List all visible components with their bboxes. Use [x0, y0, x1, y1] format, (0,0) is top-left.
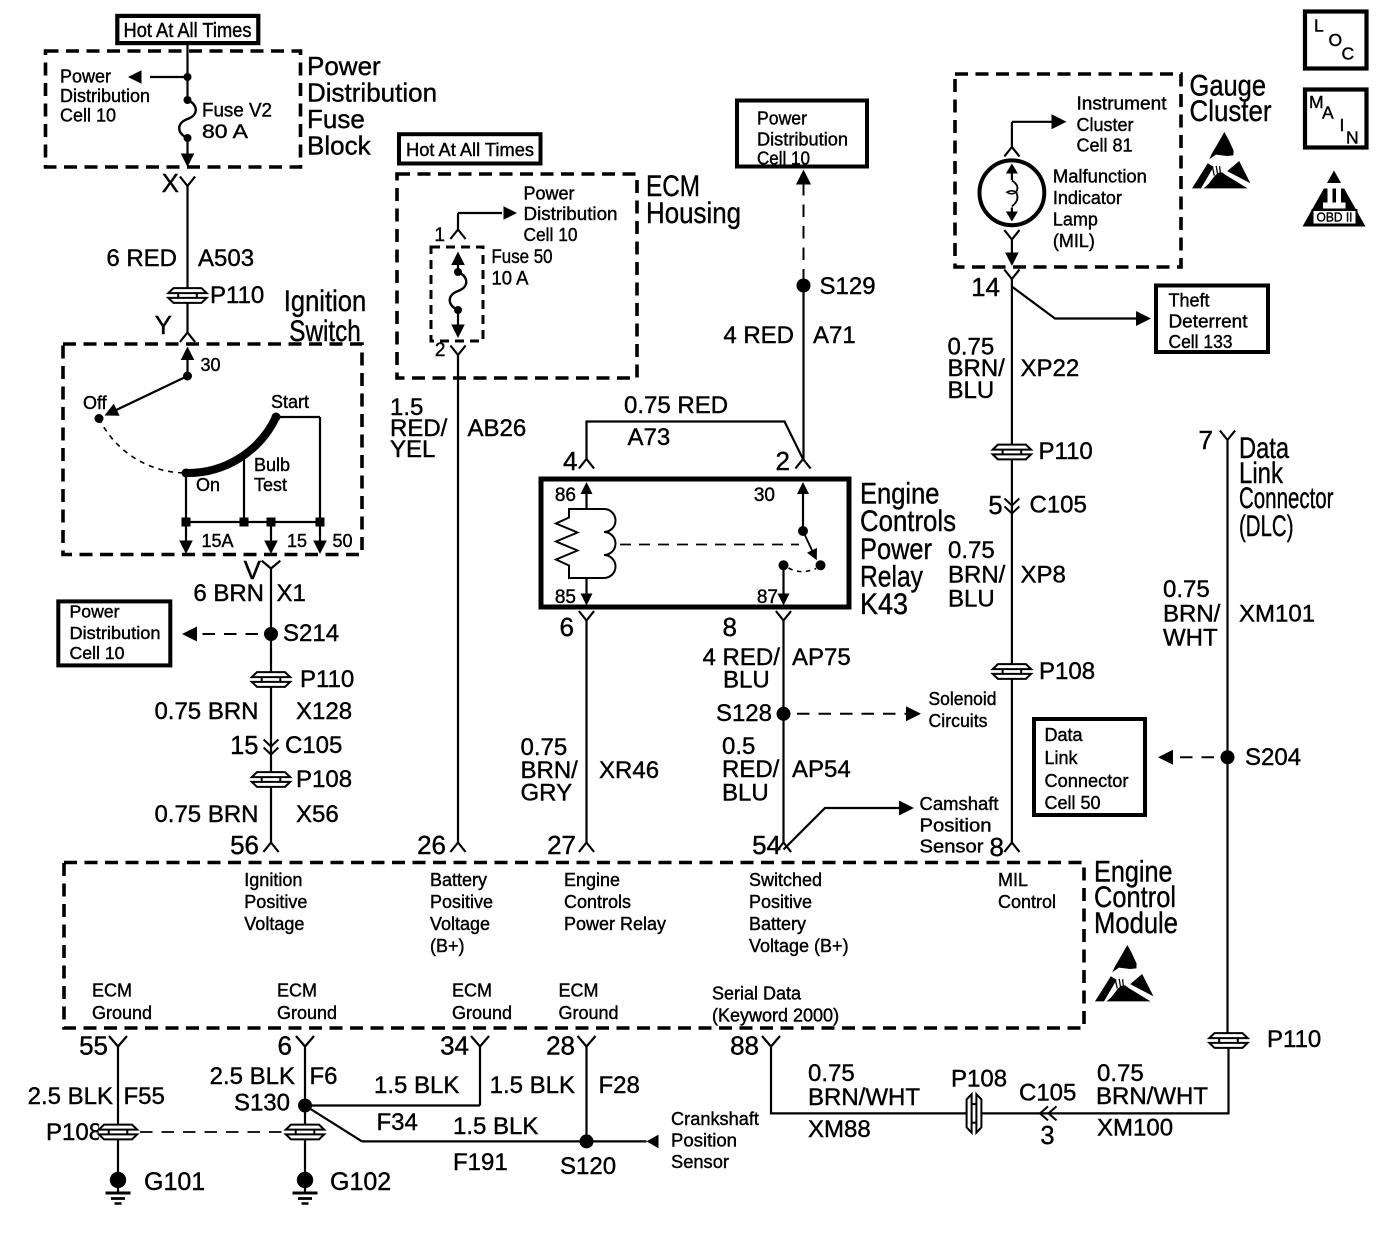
svg-text:BRN/: BRN/	[948, 562, 1006, 589]
svg-text:C105: C105	[285, 732, 342, 759]
svg-text:XP22: XP22	[1021, 355, 1080, 382]
svg-text:Sensor: Sensor	[920, 837, 984, 857]
svg-text:Battery: Battery	[430, 870, 487, 890]
svg-text:Solenoid: Solenoid	[929, 689, 997, 709]
svg-text:5: 5	[988, 492, 1002, 520]
svg-text:50: 50	[333, 531, 353, 551]
svg-text:Ground: Ground	[92, 1003, 152, 1023]
svg-text:Circuits: Circuits	[929, 711, 988, 731]
svg-text:G101: G101	[144, 1168, 205, 1196]
svg-text:ECM: ECM	[277, 981, 317, 1001]
svg-text:P110: P110	[300, 666, 354, 693]
svg-text:F28: F28	[599, 1072, 640, 1099]
svg-text:(DLC): (DLC)	[1239, 510, 1294, 543]
svg-text:ECM: ECM	[559, 981, 599, 1001]
svg-text:F191: F191	[453, 1149, 508, 1176]
svg-text:A73: A73	[628, 424, 671, 451]
svg-text:1.5 BLK: 1.5 BLK	[374, 1072, 459, 1099]
svg-text:56: 56	[230, 830, 259, 860]
svg-text:P110: P110	[1267, 1026, 1321, 1053]
svg-text:Switched: Switched	[749, 870, 822, 890]
svg-text:Indicator: Indicator	[1053, 188, 1122, 208]
svg-text:BRN/: BRN/	[1163, 601, 1221, 628]
svg-text:Fuse: Fuse	[307, 104, 365, 134]
svg-text:F34: F34	[377, 1109, 418, 1136]
svg-text:S129: S129	[820, 273, 876, 300]
svg-text:C: C	[1342, 44, 1355, 64]
svg-text:26: 26	[417, 830, 446, 860]
svg-text:Crankshaft: Crankshaft	[671, 1109, 759, 1129]
svg-text:BLU: BLU	[722, 780, 769, 807]
svg-text:0.75 RED: 0.75 RED	[624, 392, 728, 419]
svg-text:Data: Data	[1045, 725, 1084, 745]
svg-text:Distribution: Distribution	[307, 78, 437, 108]
svg-text:Cell 10: Cell 10	[70, 643, 125, 663]
svg-text:Power: Power	[757, 109, 807, 129]
svg-text:Distribution: Distribution	[60, 86, 150, 106]
svg-text:1.5 BLK: 1.5 BLK	[490, 1072, 575, 1099]
svg-text:Power Relay: Power Relay	[564, 914, 666, 934]
svg-text:Power: Power	[524, 184, 575, 204]
svg-text:XM101: XM101	[1239, 601, 1315, 628]
svg-text:1.5 BLK: 1.5 BLK	[453, 1113, 538, 1140]
svg-text:Control: Control	[998, 892, 1056, 912]
svg-text:1: 1	[434, 225, 445, 246]
svg-text:F6: F6	[310, 1063, 338, 1090]
svg-text:Battery: Battery	[749, 914, 806, 934]
svg-text:Ignition: Ignition	[284, 285, 367, 318]
svg-text:55: 55	[79, 1031, 108, 1061]
svg-text:8: 8	[990, 832, 1004, 862]
svg-text:ECM: ECM	[452, 981, 492, 1001]
svg-text:P108: P108	[951, 1066, 1007, 1093]
svg-text:Bulb: Bulb	[254, 455, 290, 475]
svg-text:BLU: BLU	[948, 586, 995, 613]
svg-text:X128: X128	[296, 698, 352, 725]
svg-text:Cell 10: Cell 10	[757, 149, 810, 169]
svg-text:2: 2	[435, 340, 446, 361]
svg-text:7: 7	[1199, 425, 1213, 455]
svg-text:P110: P110	[1039, 438, 1093, 465]
svg-text:4 RED: 4 RED	[723, 322, 794, 349]
svg-text:2.5 BLK: 2.5 BLK	[28, 1083, 113, 1110]
svg-text:S214: S214	[283, 620, 339, 647]
svg-text:XM88: XM88	[808, 1116, 871, 1143]
svg-text:Cell 50: Cell 50	[1045, 793, 1101, 813]
svg-text:Cluster: Cluster	[1190, 95, 1272, 128]
svg-text:X56: X56	[296, 801, 339, 828]
svg-text:27: 27	[547, 830, 576, 860]
svg-text:Cluster: Cluster	[1077, 115, 1134, 135]
svg-text:15A: 15A	[202, 531, 234, 551]
svg-text:Cell 133: Cell 133	[1169, 332, 1233, 352]
svg-text:AB26: AB26	[468, 415, 527, 442]
svg-text:Power: Power	[60, 67, 111, 87]
svg-text:MIL: MIL	[998, 870, 1028, 890]
svg-text:2.5 BLK: 2.5 BLK	[210, 1063, 295, 1090]
svg-text:8: 8	[723, 612, 737, 642]
svg-text:C105: C105	[1030, 492, 1087, 519]
svg-text:Ground: Ground	[277, 1003, 337, 1023]
svg-text:28: 28	[546, 1031, 575, 1061]
svg-text:O: O	[1329, 30, 1343, 50]
svg-text:A71: A71	[813, 322, 856, 349]
svg-text:AP54: AP54	[792, 756, 851, 783]
svg-text:Power: Power	[70, 602, 120, 622]
svg-text:Housing: Housing	[646, 197, 741, 230]
svg-text:G102: G102	[330, 1168, 391, 1196]
svg-text:P108: P108	[1039, 658, 1095, 685]
svg-text:Hot At All Times: Hot At All Times	[124, 20, 252, 42]
svg-text:S120: S120	[560, 1153, 616, 1180]
svg-text:Camshaft: Camshaft	[920, 794, 999, 814]
svg-text:88: 88	[730, 1031, 759, 1061]
svg-text:BRN/WHT: BRN/WHT	[808, 1084, 920, 1111]
svg-text:Start: Start	[271, 392, 309, 412]
svg-text:Hot At All Times: Hot At All Times	[406, 140, 534, 160]
svg-text:(Keyword 2000): (Keyword 2000)	[712, 1006, 839, 1026]
svg-text:Cell 81: Cell 81	[1077, 136, 1133, 156]
svg-text:XM100: XM100	[1097, 1115, 1173, 1142]
svg-text:C105: C105	[1019, 1080, 1076, 1107]
svg-text:Sensor: Sensor	[671, 1152, 729, 1172]
svg-text:Block: Block	[307, 131, 372, 161]
svg-text:80 A: 80 A	[202, 122, 248, 143]
svg-text:0.75 BRN: 0.75 BRN	[154, 698, 258, 725]
svg-text:Ground: Ground	[559, 1003, 619, 1023]
svg-text:(B+): (B+)	[430, 936, 465, 956]
svg-text:30: 30	[754, 485, 775, 506]
svg-text:S204: S204	[1245, 744, 1301, 771]
svg-text:4: 4	[563, 446, 577, 476]
svg-text:15: 15	[230, 732, 258, 760]
svg-text:A503: A503	[198, 245, 254, 272]
svg-text:14: 14	[971, 272, 1000, 302]
svg-text:10 A: 10 A	[492, 269, 529, 290]
svg-text:Ground: Ground	[452, 1003, 512, 1023]
svg-text:BLU: BLU	[723, 667, 770, 694]
svg-text:Positive: Positive	[430, 892, 493, 912]
svg-text:Deterrent: Deterrent	[1169, 312, 1248, 332]
svg-text:S130: S130	[234, 1090, 290, 1117]
svg-text:34: 34	[440, 1031, 469, 1061]
svg-text:Position: Position	[920, 816, 992, 836]
svg-text:Off: Off	[83, 393, 108, 413]
svg-text:2: 2	[776, 446, 790, 476]
svg-text:Cell 10: Cell 10	[524, 225, 578, 245]
svg-text:A: A	[1322, 103, 1334, 123]
svg-text:Serial Data: Serial Data	[712, 984, 802, 1004]
svg-text:0.75: 0.75	[948, 537, 995, 564]
svg-text:XR46: XR46	[599, 757, 659, 784]
svg-text:P108: P108	[46, 1119, 102, 1146]
svg-text:BLU: BLU	[948, 377, 995, 404]
svg-text:WHT: WHT	[1163, 625, 1218, 652]
svg-text:Power: Power	[307, 51, 381, 81]
svg-text:Malfunction: Malfunction	[1053, 167, 1147, 187]
svg-text:Positive: Positive	[244, 892, 307, 912]
svg-text:Position: Position	[671, 1131, 737, 1151]
svg-text:Fuse V2: Fuse V2	[202, 101, 272, 122]
svg-text:P108: P108	[296, 766, 352, 793]
svg-text:6: 6	[560, 612, 574, 642]
svg-text:XP8: XP8	[1021, 562, 1066, 589]
svg-text:AP75: AP75	[792, 644, 851, 671]
svg-text:N: N	[1346, 128, 1359, 148]
svg-text:I: I	[1340, 115, 1345, 135]
svg-text:3: 3	[1040, 1122, 1054, 1150]
svg-text:Voltage: Voltage	[244, 914, 304, 934]
svg-text:Positive: Positive	[749, 892, 812, 912]
svg-text:6: 6	[278, 1031, 292, 1061]
svg-text:Distribution: Distribution	[70, 623, 161, 643]
svg-text:Voltage: Voltage	[430, 914, 490, 934]
svg-text:YEL: YEL	[390, 436, 435, 463]
svg-text:X1: X1	[277, 580, 306, 607]
svg-text:ECM: ECM	[92, 981, 132, 1001]
svg-text:30: 30	[201, 355, 221, 375]
svg-text:6 RED: 6 RED	[106, 245, 177, 272]
svg-text:Link: Link	[1045, 748, 1079, 768]
svg-text:(MIL): (MIL)	[1053, 231, 1095, 251]
svg-text:Distribution: Distribution	[524, 204, 618, 224]
svg-text:F55: F55	[124, 1083, 165, 1110]
svg-text:Theft: Theft	[1169, 291, 1210, 311]
svg-text:K43: K43	[860, 588, 908, 621]
svg-text:X: X	[162, 168, 179, 198]
svg-text:Connector: Connector	[1045, 771, 1129, 791]
svg-text:0.75: 0.75	[808, 1060, 855, 1087]
svg-text:Controls: Controls	[564, 892, 631, 912]
svg-text:Lamp: Lamp	[1053, 210, 1098, 230]
svg-text:On: On	[196, 475, 220, 495]
svg-text:15: 15	[287, 531, 307, 551]
svg-text:Y: Y	[155, 310, 172, 340]
svg-text:Instrument: Instrument	[1077, 94, 1167, 114]
svg-text:Test: Test	[254, 475, 287, 495]
svg-text:Ignition: Ignition	[244, 870, 302, 890]
svg-text:87: 87	[757, 587, 778, 608]
svg-text:S128: S128	[716, 700, 772, 727]
svg-text:85: 85	[555, 587, 576, 608]
svg-text:Fuse 50: Fuse 50	[492, 247, 553, 268]
svg-text:P110: P110	[210, 282, 264, 309]
svg-text:0.75 BRN: 0.75 BRN	[154, 801, 258, 828]
svg-text:86: 86	[555, 485, 576, 506]
svg-text:54: 54	[752, 830, 781, 860]
svg-text:OBD II: OBD II	[1317, 211, 1353, 225]
svg-text:Cell 10: Cell 10	[60, 106, 116, 126]
svg-text:6 BRN: 6 BRN	[193, 580, 264, 607]
svg-text:Voltage (B+): Voltage (B+)	[749, 936, 849, 956]
svg-text:Module: Module	[1094, 907, 1178, 940]
svg-text:Distribution: Distribution	[757, 130, 848, 150]
svg-text:GRY: GRY	[521, 780, 573, 807]
svg-text:0.75: 0.75	[1163, 576, 1210, 603]
svg-text:Engine: Engine	[564, 870, 620, 890]
svg-text:BRN/WHT: BRN/WHT	[1096, 1083, 1208, 1110]
svg-text:L: L	[1314, 16, 1324, 36]
